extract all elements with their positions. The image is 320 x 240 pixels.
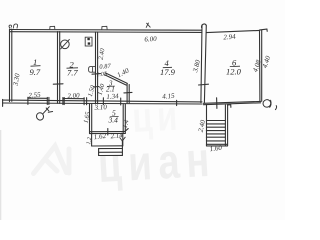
room label 5 / 3.4	[108, 108, 119, 124]
wall: left exterior	[9, 29, 11, 102]
window room 1: jamb ticks	[27, 97, 29, 104]
svg-text:6.00: 6.00	[144, 35, 157, 44]
wall: room 6 bottom	[203, 101, 260, 103]
wall: divider rooms 4/6	[201, 25, 202, 103]
room label 6 / 12.0	[226, 57, 242, 76]
tick on wall x95 upper	[92, 73, 101, 76]
staircase steps	[206, 120, 225, 122]
room 5 left wall	[89, 104, 91, 134]
porch right connector	[122, 134, 124, 147]
svg-text:1.05: 1.05	[96, 72, 107, 79]
wall: room 6 top	[207, 30, 260, 32]
watermark icon (cian chevron)	[34, 146, 70, 174]
svg-text:2.94: 2.94	[223, 33, 236, 42]
wall: top exterior inner line	[10, 31, 202, 34]
tick on divider 4/6	[199, 83, 209, 86]
svg-text:0.87: 0.87	[99, 63, 112, 71]
staircase left wall	[206, 105, 208, 146]
door sill tick room 3/4	[124, 91, 132, 94]
svg-text:17.9: 17.9	[160, 67, 176, 77]
vent symbol above wall x95	[102, 26, 107, 29]
wall: bottom exterior (rooms 1-2, vestibule, room 4)	[3, 100, 202, 102]
porch landing line	[92, 145, 123, 147]
wall: top exterior outer line	[10, 29, 202, 32]
window room 2: jamb ticks	[62, 98, 64, 105]
svg-text:1.2: 1.2	[86, 137, 93, 145]
watermark word row 2 (upper faint)	[131, 92, 183, 141]
wall: room 2 right (x=95)	[95, 32, 97, 104]
door opening ticks (vestibule)	[102, 98, 104, 105]
stove symbol (circle with slash)	[61, 40, 70, 49]
svg-text:1.34: 1.34	[106, 92, 119, 101]
svg-text:3.10: 3.10	[93, 103, 107, 112]
svg-text:2.00: 2.00	[67, 91, 80, 100]
vent symbol top-left curls	[9, 24, 18, 28]
window room 1: sill	[28, 97, 48, 99]
vent symbol above divider 1/2	[50, 26, 55, 29]
porch steps	[99, 148, 123, 150]
mark a3 (loop with tail) bottom-left	[35, 107, 52, 121]
room label 2 / 7.7	[67, 59, 78, 77]
room label 3 / 2.1	[106, 79, 115, 93]
wall: room 3 right vertical	[126, 84, 128, 103]
room 5 right wall	[122, 104, 124, 133]
wall end tick bottom-left	[2, 99, 4, 106]
svg-text:12.0: 12.0	[226, 66, 242, 76]
check tick near room 5 corner	[125, 129, 128, 132]
tick on wall x95 lower	[94, 86, 100, 88]
wall: divider rooms 1/2	[57, 32, 59, 104]
svg-text:7.7: 7.7	[67, 67, 78, 77]
mark Y below room 5	[120, 137, 125, 146]
meter box with two dots	[85, 37, 92, 46]
scan edge left	[0, 130, 1, 220]
tick at room 6 top-right corner	[260, 28, 267, 31]
mark a1 bottom right	[262, 99, 276, 110]
room label 1 / 9.7	[30, 57, 41, 77]
junction tick on bottom wall room 4	[176, 100, 178, 105]
vent mark above room 4	[146, 23, 150, 27]
svg-text:циан: циан	[97, 132, 218, 193]
wall: diagonal of room 3	[106, 73, 128, 83]
svg-text:1.62: 1.62	[93, 132, 107, 141]
tick on room 5 bottom wall	[107, 129, 109, 135]
doorway tick room 6 / stairs	[216, 98, 218, 109]
wall: room 6 right	[259, 30, 261, 101]
svg-text:9.7: 9.7	[30, 67, 41, 77]
sink symbol on wall x95	[89, 67, 95, 73]
room label 4 / 17.9	[160, 58, 176, 77]
svg-text:4.15: 4.15	[162, 92, 175, 101]
tick on divider 1/2	[53, 83, 63, 85]
room 5 bottom wall	[90, 131, 126, 133]
svg-text:2.55: 2.55	[28, 91, 41, 100]
watermark word циан	[97, 132, 218, 193]
staircase top-right notch	[228, 104, 231, 106]
porch left connector	[91, 134, 93, 146]
window room 2: sill	[63, 98, 84, 100]
staircase right wall	[224, 105, 226, 146]
svg-text:2.14: 2.14	[110, 131, 124, 140]
curl atop divider 4/6	[202, 24, 206, 28]
